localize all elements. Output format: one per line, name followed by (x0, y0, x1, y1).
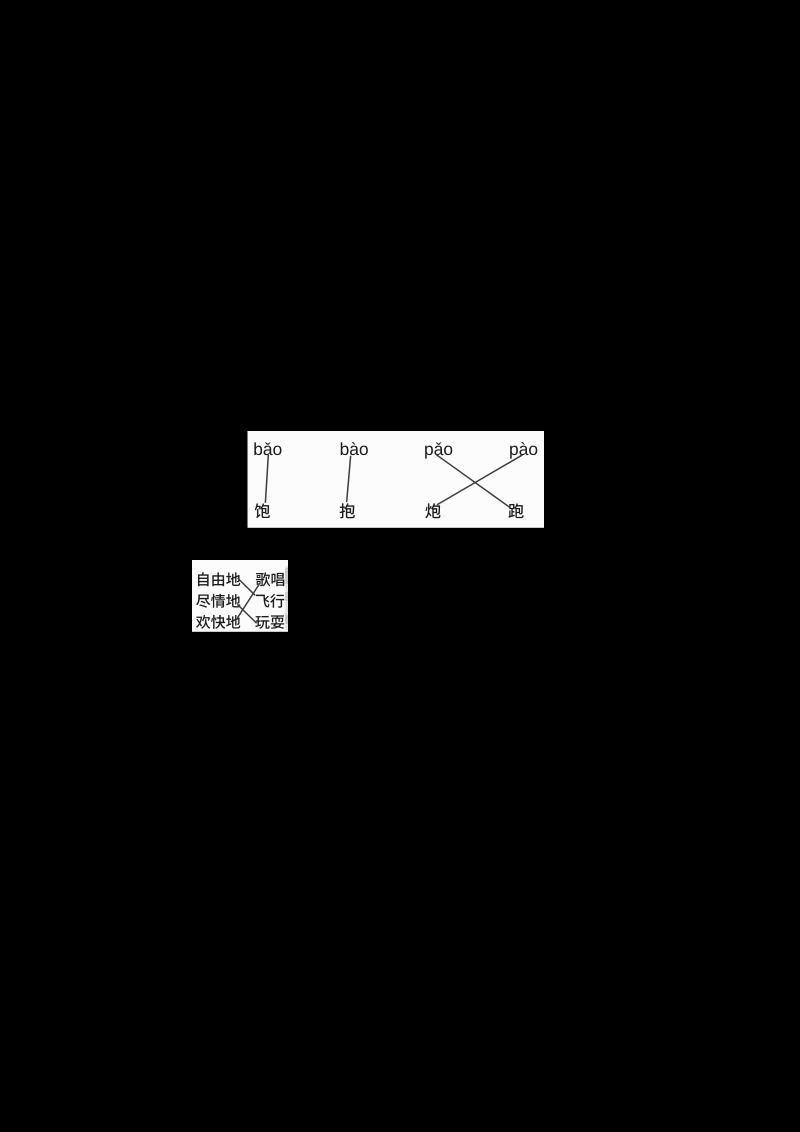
character 抱 (340, 503, 355, 518)
matching lines box 1 (265, 455, 522, 507)
phrase 欢快地 (196, 615, 240, 629)
character 跑 (508, 503, 523, 518)
matching lines box 2 (238, 578, 259, 622)
phrase 尽情地 (196, 594, 240, 608)
pinyin labels bao/pao (254, 442, 537, 458)
phrase 飞行 (256, 594, 284, 608)
scan ghost strip on right edge of box 2 (285, 566, 288, 630)
phrase 玩耍 (255, 615, 284, 628)
worksheet box 2 (adverb matching) (192, 560, 288, 632)
character 炮 (425, 503, 440, 518)
worksheet box 1 (pinyin matching) (248, 431, 545, 528)
phrase 自由地 (198, 572, 240, 586)
character 饱 (255, 503, 270, 518)
phrase 歌唱 (256, 572, 284, 586)
